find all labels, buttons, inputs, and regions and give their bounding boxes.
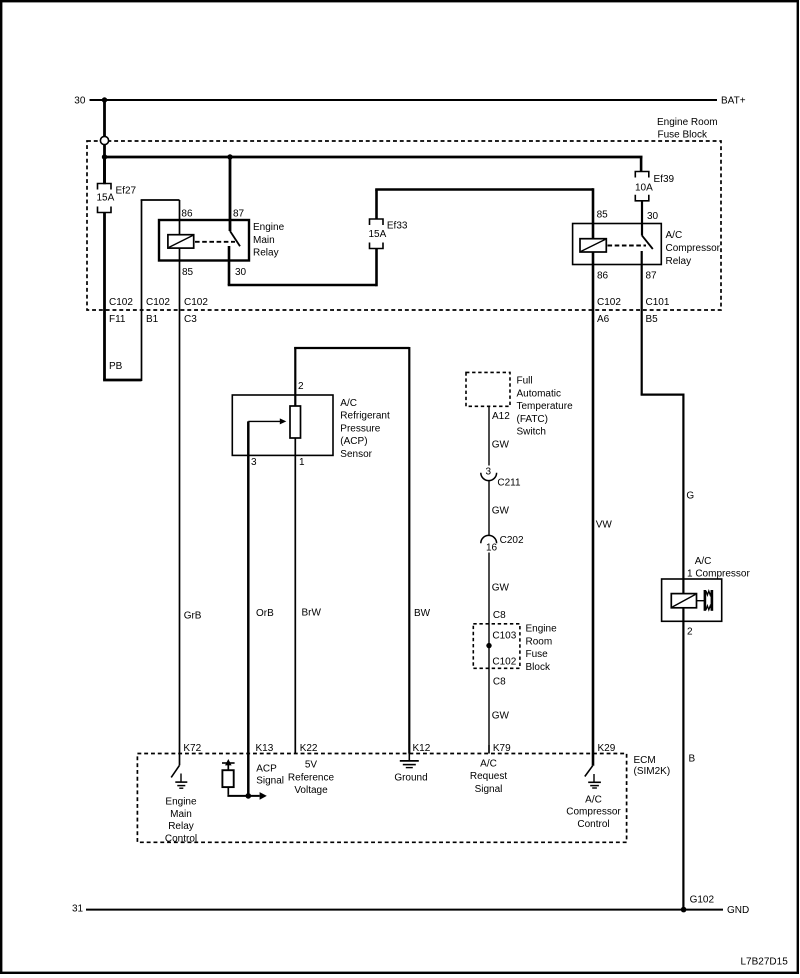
wire sensor pin 2 loop to ECM K12: [294, 347, 409, 754]
svg-text:K12: K12: [413, 743, 431, 754]
svg-text:3: 3: [251, 457, 257, 468]
svg-text:A6: A6: [597, 314, 610, 325]
svg-text:K22: K22: [300, 743, 318, 754]
svg-text:86: 86: [181, 208, 193, 219]
wire from bus 30 into fuse block: [103, 100, 106, 184]
svg-text:A/C: A/C: [585, 794, 602, 805]
wire GW: C211 to C202: [488, 481, 490, 536]
svg-text:Control: Control: [165, 833, 197, 844]
connector C102 B1 crossing: [146, 297, 170, 325]
svg-text:A/C: A/C: [666, 230, 683, 241]
wire A/C relay 87 over to compressor column: [641, 394, 684, 396]
relay switch contact 87: [641, 251, 643, 395]
relay link dashed line: [608, 245, 647, 247]
Full Automatic Temperature (FATC) Switch dashed box: [466, 372, 573, 437]
node 30 BAT+ bus: [74, 96, 745, 107]
svg-text:C101: C101: [646, 297, 670, 308]
svg-text:87: 87: [233, 208, 245, 219]
svg-text:G102: G102: [690, 894, 715, 905]
svg-text:OrB: OrB: [256, 608, 274, 619]
svg-text:85: 85: [182, 267, 194, 278]
A/C Refrigerant Pressure (ACP) Sensor box: [232, 395, 390, 460]
fuse Ef27 15A: [97, 157, 137, 213]
svg-text:1 Compressor: 1 Compressor: [687, 568, 750, 579]
svg-text:Control: Control: [577, 819, 609, 830]
svg-text:L7B27D15: L7B27D15: [741, 956, 789, 967]
svg-text:30: 30: [235, 267, 247, 278]
svg-text:GW: GW: [492, 439, 510, 450]
wire PB: fuse Ef27 down: [103, 212, 106, 380]
svg-text:K29: K29: [598, 743, 616, 754]
svg-text:Switch: Switch: [517, 427, 546, 438]
svg-text:ACP: ACP: [256, 764, 277, 775]
svg-text:15A: 15A: [369, 229, 387, 240]
svg-text:30: 30: [74, 96, 86, 107]
pin labels 86 87 85 30: [181, 208, 246, 277]
wire GW: C202 to fuse block pass-through: [488, 553, 490, 754]
sensor element: [290, 406, 301, 438]
svg-text:Room: Room: [526, 636, 553, 647]
svg-text:Full: Full: [517, 376, 533, 387]
svg-text:(FATC): (FATC): [517, 414, 548, 425]
svg-text:Main: Main: [170, 809, 192, 820]
svg-text:Refrigerant: Refrigerant: [340, 411, 390, 422]
svg-text:C102: C102: [109, 297, 133, 308]
svg-text:Relay: Relay: [253, 248, 279, 259]
relay switch blade: [642, 236, 653, 249]
svg-text:VW: VW: [596, 520, 613, 531]
svg-text:GND: GND: [727, 905, 749, 916]
svg-text:C102: C102: [184, 297, 208, 308]
sensor pin labels 2 3 1: [251, 381, 305, 468]
svg-text:A/C: A/C: [480, 758, 497, 769]
svg-text:3: 3: [486, 466, 492, 477]
relay coil: [580, 239, 606, 252]
svg-text:Automatic: Automatic: [517, 388, 561, 399]
ground (K72 driver): [175, 774, 187, 789]
label A/C Request Signal: [470, 758, 507, 795]
inner feed bus: [105, 156, 643, 159]
svg-text:C3: C3: [184, 314, 197, 325]
svg-text:31: 31: [72, 904, 84, 915]
svg-text:C8: C8: [493, 677, 506, 688]
svg-text:PB: PB: [109, 361, 123, 372]
junction dot on bus 30: [102, 97, 107, 102]
wire bus to fuse Ef39: [640, 157, 643, 172]
svg-text:(ACP): (ACP): [340, 436, 367, 447]
svg-text:Engine: Engine: [253, 222, 285, 233]
svg-text:Ef27: Ef27: [116, 186, 137, 197]
svg-text:K13: K13: [256, 743, 274, 754]
resistor pull-up (ACP signal): [222, 759, 267, 800]
svg-text:C102: C102: [492, 656, 516, 667]
ground (K12): [400, 754, 419, 768]
svg-text:C103: C103: [492, 630, 516, 641]
wire VW: A/C relay 86 to ECM K29: [592, 252, 595, 766]
svg-text:Ground: Ground: [394, 773, 427, 784]
junction dot: [227, 154, 232, 159]
svg-text:Fuse Block: Fuse Block: [658, 129, 708, 140]
svg-text:BW: BW: [414, 608, 431, 619]
ECM pin labels: [183, 743, 615, 754]
svg-text:A/C: A/C: [695, 556, 712, 567]
svg-text:C102: C102: [597, 297, 621, 308]
wire K79 stub: [488, 745, 490, 754]
svg-text:Signal: Signal: [256, 776, 284, 787]
fuse Ef33 15A: [369, 219, 408, 249]
ground (K29 driver): [588, 774, 601, 788]
relay switch contact 30: [228, 246, 231, 285]
svg-text:Voltage: Voltage: [294, 785, 328, 796]
svg-text:Engine Room: Engine Room: [657, 117, 718, 128]
svg-text:2: 2: [298, 381, 304, 392]
svg-text:30: 30: [647, 211, 659, 222]
wire fuse Ef33 to A/C relay pin 85: [375, 188, 593, 239]
wire to relay pin 86: [141, 199, 180, 201]
svg-text:ECM: ECM: [634, 755, 656, 766]
wire fuse Ef39 to A/C relay pin 30: [641, 201, 643, 236]
svg-text:1: 1: [299, 457, 305, 468]
wire OrB: sensor pin 3 to ECM K13: [247, 421, 250, 796]
svg-text:Signal: Signal: [475, 784, 503, 795]
svg-text:Relay: Relay: [666, 256, 692, 267]
svg-text:K79: K79: [493, 743, 511, 754]
A/C Compressor box: [662, 556, 751, 638]
ECM (SIM2K) dashed box: [137, 754, 670, 843]
svg-text:5V: 5V: [305, 760, 318, 771]
junction dot K13: [246, 793, 252, 799]
junction dot: [102, 154, 107, 159]
wire BrW: sensor pin 1 to ECM K22: [294, 438, 296, 754]
svg-text:B1: B1: [146, 314, 159, 325]
svg-text:GW: GW: [492, 710, 510, 721]
svg-text:2: 2: [687, 627, 693, 638]
svg-text:Reference: Reference: [288, 772, 335, 783]
label ACP Signal: [256, 764, 284, 787]
Engine Room Fuse Block dashed box: [87, 117, 721, 310]
svg-text:Engine: Engine: [526, 624, 558, 635]
svg-text:Block: Block: [526, 662, 551, 673]
junction dot in pass-through: [486, 643, 491, 648]
junction dot G102: [681, 907, 687, 913]
svg-text:Compressor: Compressor: [666, 243, 721, 254]
wire relay 30 to fuse Ef33: [228, 249, 377, 287]
fuse block pass-through dashed box C103/C102: [473, 624, 557, 673]
svg-text:C102: C102: [146, 297, 170, 308]
svg-text:Main: Main: [253, 235, 275, 246]
svg-text:16: 16: [486, 543, 498, 554]
svg-text:A/C: A/C: [340, 398, 357, 409]
svg-text:Engine: Engine: [165, 797, 197, 808]
svg-text:F11: F11: [109, 314, 126, 325]
svg-text:C8: C8: [493, 610, 506, 621]
wire G down to compressor: [682, 394, 684, 595]
svg-text:K72: K72: [183, 743, 201, 754]
label A/C Compressor Control: [566, 794, 621, 830]
svg-text:Relay: Relay: [168, 821, 194, 832]
connector C102 F11 crossing: [109, 297, 133, 325]
connector C102 C3 crossing: [184, 297, 208, 325]
relay link dashed line: [195, 241, 235, 243]
svg-text:GW: GW: [492, 506, 510, 517]
sensor wiper arrow: [248, 418, 286, 424]
wire pin 87 feed from bus: [229, 157, 232, 231]
relay K1 Engine Main Relay box: [159, 220, 285, 261]
connector C211 half: [481, 466, 521, 488]
svg-text:B: B: [689, 753, 696, 764]
relay switch blade: [230, 231, 240, 246]
wire B1 up: [141, 200, 143, 381]
svg-text:Ef39: Ef39: [654, 174, 675, 185]
svg-text:C202: C202: [500, 535, 524, 546]
svg-text:Sensor: Sensor: [340, 449, 372, 460]
connector C202 half: [481, 535, 524, 554]
K72 driver switch: [171, 765, 179, 777]
svg-text:G: G: [686, 491, 694, 502]
svg-text:86: 86: [597, 270, 609, 281]
wire corner at bottom of PB run: [103, 379, 141, 382]
svg-text:Fuse: Fuse: [526, 649, 549, 660]
node 31 ground bus: [72, 904, 749, 917]
pin labels 85 30 86 87: [597, 209, 659, 281]
svg-text:(SIM2K): (SIM2K): [634, 766, 671, 777]
svg-text:87: 87: [646, 270, 658, 281]
open circle terminal at fuse block entry: [100, 136, 108, 144]
svg-text:GW: GW: [492, 582, 510, 593]
svg-text:85: 85: [597, 209, 609, 220]
K29 driver switch: [585, 766, 593, 777]
svg-text:Temperature: Temperature: [517, 401, 574, 412]
svg-text:BrW: BrW: [302, 607, 322, 618]
svg-text:15A: 15A: [97, 192, 115, 203]
relay coil: [168, 235, 194, 248]
svg-text:10A: 10A: [635, 182, 653, 193]
svg-text:Pressure: Pressure: [340, 423, 380, 434]
label 5V Reference Voltage: [288, 760, 335, 797]
label Engine Main Relay Control: [165, 797, 197, 845]
connector C102 A6 crossing: [597, 297, 621, 325]
svg-text:Request: Request: [470, 771, 507, 782]
fuse Ef39 10A: [635, 172, 675, 201]
svg-text:C211: C211: [497, 477, 521, 488]
svg-text:B5: B5: [646, 314, 659, 325]
wire GrB: relay 85 to ECM K72: [179, 248, 181, 766]
relay K2 A/C Compressor Relay box: [573, 224, 721, 268]
connector C101 B5 crossing: [646, 297, 670, 325]
svg-text:Compressor: Compressor: [566, 807, 621, 818]
svg-text:Ef33: Ef33: [387, 221, 408, 232]
svg-text:BAT+: BAT+: [721, 96, 746, 107]
svg-text:GrB: GrB: [184, 610, 202, 621]
compressor clutch coil: [671, 594, 696, 608]
wire GW: FATC to C211: [488, 406, 490, 465]
wire B from compressor to ground bus: [682, 608, 684, 910]
svg-text:A12: A12: [492, 411, 510, 422]
clutch pulley symbol: [697, 590, 714, 611]
